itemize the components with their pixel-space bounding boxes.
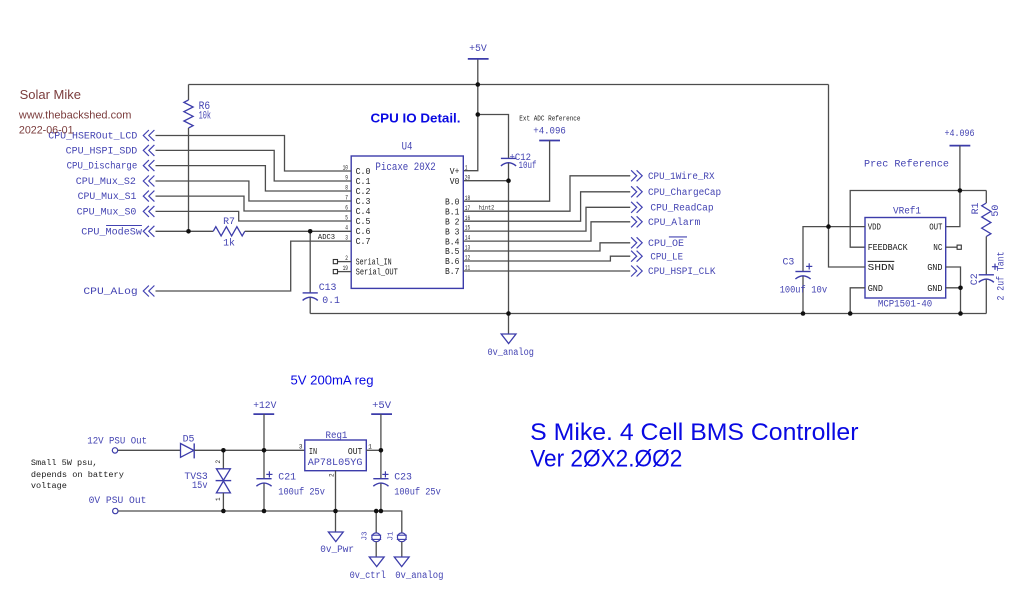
svg-text:B 2: B 2: [445, 217, 459, 227]
svg-text:2 2uf Tant: 2 2uf Tant: [996, 252, 1007, 301]
svg-text:100uf 25v: 100uf 25v: [394, 487, 441, 498]
svg-text:C.2: C.2: [356, 187, 371, 197]
svg-text:0v_ctrl: 0v_ctrl: [350, 570, 386, 581]
svg-text:CPU_ChargeCap: CPU_ChargeCap: [648, 187, 721, 198]
svg-text:S Mike. 4 Cell BMS Controller: S Mike. 4 Cell BMS Controller: [530, 419, 858, 446]
svg-text:10uf: 10uf: [519, 160, 537, 171]
svg-text:CPU_ALog: CPU_ALog: [83, 286, 137, 297]
svg-text:1: 1: [368, 443, 372, 450]
svg-text:J3: J3: [362, 531, 370, 541]
svg-text:OUT: OUT: [929, 223, 942, 233]
svg-text:2022-06-01: 2022-06-01: [19, 125, 74, 137]
svg-text:Solar Mike: Solar Mike: [20, 87, 81, 102]
svg-text:FEEDBACK: FEEDBACK: [868, 243, 909, 253]
svg-text:IN: IN: [309, 447, 317, 457]
svg-text:D5: D5: [183, 433, 195, 444]
svg-text:voltage: voltage: [31, 481, 67, 491]
svg-text:C.4: C.4: [356, 207, 371, 217]
svg-text:depends on battery: depends on battery: [31, 470, 124, 480]
svg-text:CPU_Alarm: CPU_Alarm: [648, 217, 700, 228]
svg-text:3: 3: [299, 443, 303, 450]
svg-text:SHDN: SHDN: [868, 263, 895, 273]
svg-text:VDD: VDD: [868, 223, 881, 233]
svg-text:C3: C3: [783, 257, 795, 268]
svg-text:CPU_1Wire_RX: CPU_1Wire_RX: [648, 171, 715, 182]
svg-text:B.0: B.0: [445, 197, 459, 207]
svg-text:VRef1: VRef1: [893, 205, 921, 216]
svg-text:R1: R1: [970, 202, 981, 214]
svg-text:20: 20: [465, 174, 471, 181]
svg-text:B.5: B.5: [445, 247, 459, 257]
svg-text:10k: 10k: [199, 111, 211, 123]
svg-text:CPU_ModeSw: CPU_ModeSw: [81, 226, 142, 237]
svg-text:C13: C13: [319, 282, 337, 293]
svg-text:B.7: B.7: [445, 267, 459, 277]
svg-text:+5V: +5V: [372, 400, 391, 411]
svg-text:C.3: C.3: [356, 197, 371, 207]
svg-text:www.thebackshed.com: www.thebackshed.com: [18, 109, 131, 121]
svg-text:B.1: B.1: [445, 207, 459, 217]
svg-text:100uf: 100uf: [780, 285, 806, 296]
svg-text:CPU_HSPI_SDD: CPU_HSPI_SDD: [66, 146, 138, 157]
svg-text:2: 2: [329, 473, 336, 477]
svg-text:CPU_OE: CPU_OE: [648, 238, 684, 249]
svg-text:10v: 10v: [811, 285, 827, 296]
svg-text:CPU_HSPI_CLK: CPU_HSPI_CLK: [648, 266, 716, 277]
svg-text:V0: V0: [450, 177, 460, 187]
svg-text:V+: V+: [450, 167, 460, 177]
svg-text:GND: GND: [868, 284, 883, 294]
svg-text:C.5: C.5: [356, 217, 371, 227]
svg-text:18: 18: [465, 195, 471, 202]
svg-text:CPU_LE: CPU_LE: [650, 251, 683, 262]
svg-text:100uf 25v: 100uf 25v: [278, 487, 325, 498]
svg-text:15v: 15v: [192, 480, 208, 491]
svg-text:C.7: C.7: [356, 237, 371, 247]
svg-text:B 3: B 3: [445, 227, 459, 237]
svg-text:0.1: 0.1: [322, 295, 340, 306]
svg-text:1k: 1k: [223, 238, 235, 249]
svg-text:C.6: C.6: [356, 227, 371, 237]
svg-text:Prec Reference: Prec Reference: [864, 159, 949, 171]
svg-text:0v_analog: 0v_analog: [395, 570, 443, 581]
svg-text:Reg1: Reg1: [326, 430, 348, 441]
svg-text:1: 1: [465, 164, 468, 171]
svg-text:MCP1501-40: MCP1501-40: [878, 299, 932, 311]
svg-text:C.1: C.1: [356, 177, 371, 187]
svg-text:B.6: B.6: [445, 257, 459, 267]
svg-text:5V 200mA reg: 5V 200mA reg: [291, 374, 374, 388]
svg-text:+4.096: +4.096: [945, 128, 975, 139]
svg-text:+4.096: +4.096: [533, 126, 566, 137]
svg-text:GND: GND: [927, 263, 942, 273]
svg-text:Ver 2ØX2.ØØ2: Ver 2ØX2.ØØ2: [530, 445, 682, 472]
svg-text:AP78L05YG: AP78L05YG: [308, 458, 363, 469]
svg-text:12V PSU Out: 12V PSU Out: [87, 435, 147, 446]
svg-text:+5V: +5V: [469, 43, 487, 55]
svg-text:+12V: +12V: [253, 400, 276, 411]
svg-text:C21: C21: [278, 472, 296, 483]
svg-text:B.4: B.4: [445, 237, 459, 247]
svg-text:CPU_Mux_S1: CPU_Mux_S1: [78, 191, 137, 202]
svg-text:CPU_Mux_S0: CPU_Mux_S0: [77, 207, 137, 218]
svg-text:Serial_OUT: Serial_OUT: [356, 268, 398, 278]
svg-text:NC: NC: [933, 243, 942, 253]
svg-text:CPU_Discharge: CPU_Discharge: [67, 161, 138, 172]
svg-text:hint2: hint2: [479, 204, 495, 211]
svg-text:Ext ADC Reference: Ext ADC Reference: [519, 116, 580, 124]
svg-text:CPU IO Detail.: CPU IO Detail.: [371, 111, 461, 126]
svg-text:4: 4: [345, 225, 348, 232]
svg-text:CPU_ReadCap: CPU_ReadCap: [650, 202, 713, 213]
svg-text:R7: R7: [223, 216, 235, 227]
svg-text:OUT: OUT: [348, 447, 363, 457]
svg-text:U4: U4: [402, 141, 413, 153]
svg-text:Serial_IN: Serial_IN: [356, 258, 392, 268]
svg-text:2: 2: [215, 460, 222, 464]
svg-text:1: 1: [215, 497, 222, 501]
svg-text:Picaxe 20X2: Picaxe 20X2: [375, 162, 435, 174]
svg-text:0V PSU Out: 0V PSU Out: [89, 495, 147, 506]
svg-text:C23: C23: [394, 472, 412, 483]
svg-text:0v_Pwr: 0v_Pwr: [320, 544, 354, 555]
svg-text:C.0: C.0: [356, 167, 371, 177]
svg-text:GND: GND: [927, 284, 942, 294]
svg-text:0v_analog: 0v_analog: [488, 347, 534, 358]
svg-text:50: 50: [990, 205, 1001, 217]
svg-text:Small 5W psu,: Small 5W psu,: [31, 458, 98, 468]
svg-text:CPU_Mux_S2: CPU_Mux_S2: [76, 176, 136, 187]
svg-text:J1: J1: [387, 531, 395, 541]
svg-text:C2: C2: [969, 273, 980, 285]
